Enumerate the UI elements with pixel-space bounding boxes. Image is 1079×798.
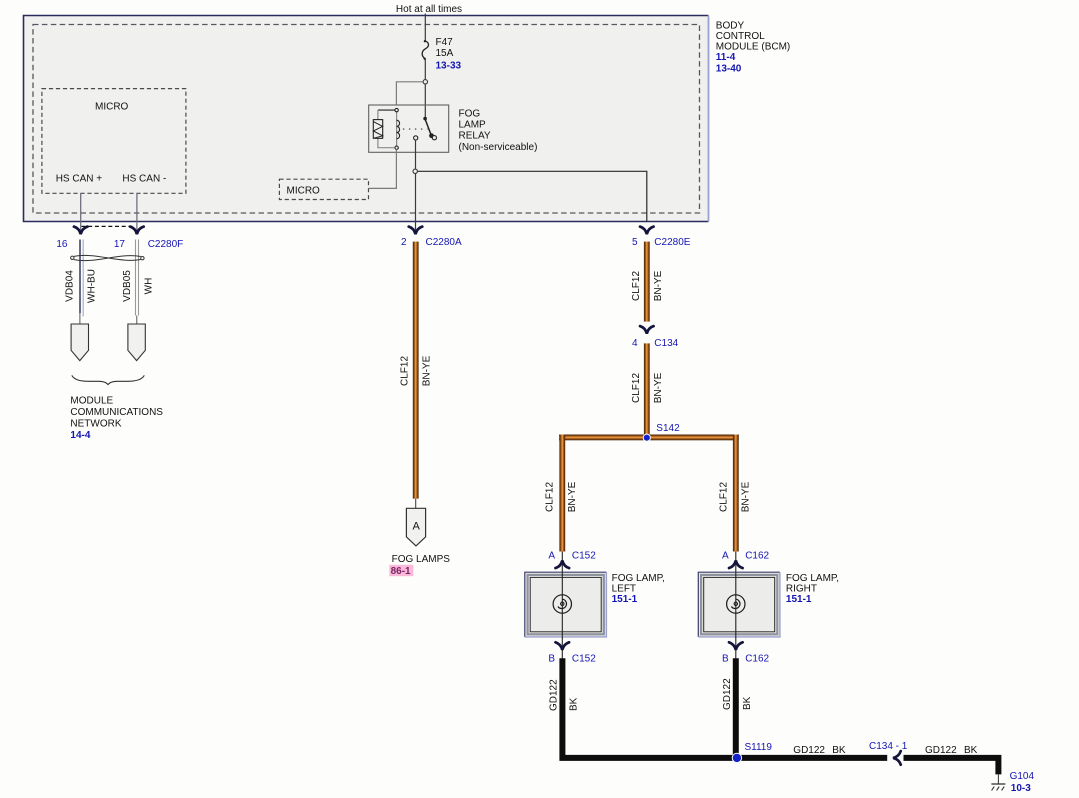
svg-text:14-4: 14-4 (70, 430, 90, 441)
connector C134-1 arrow (893, 751, 901, 765)
module communications network label (70, 395, 163, 441)
junction node at relay output (413, 169, 417, 173)
ground G104 labels (1010, 771, 1035, 794)
fog lamp right label (786, 573, 839, 605)
svg-text:B: B (548, 654, 555, 665)
svg-text:LEFT: LEFT (612, 584, 636, 595)
relay coil vertical conductor (396, 112, 398, 146)
svg-text:MODULE: MODULE (70, 395, 113, 406)
relay coil bottom pin (395, 146, 398, 149)
off-page arrow (HS CAN -) (128, 324, 145, 361)
BCM module box (24, 16, 709, 222)
fog lamp left bulb (553, 572, 571, 637)
BCM inner dashed border (33, 25, 700, 214)
wire GD122 BK left (562, 658, 737, 758)
svg-text:86-1: 86-1 (391, 566, 411, 577)
svg-text:BN-YE: BN-YE (653, 270, 664, 301)
splice S142 (643, 423, 680, 441)
wire: junction branch to relay coil (396, 82, 422, 105)
svg-text:FOG LAMP,: FOG LAMP, (786, 573, 839, 584)
relay switch (414, 117, 437, 140)
wire: left drop to C152 (559, 435, 565, 552)
connector C2280F pin 16 arrow (74, 227, 88, 235)
svg-text:HS CAN -: HS CAN - (122, 174, 166, 185)
svg-text:B: B (722, 654, 729, 665)
off-page arrow (HS CAN +) (71, 324, 88, 361)
svg-text:CLF12: CLF12 (399, 356, 410, 386)
svg-text:FOG: FOG (459, 108, 481, 119)
ground G104 (991, 784, 1005, 790)
svg-text:BK: BK (832, 745, 846, 756)
svg-text:BN-YE: BN-YE (653, 372, 664, 403)
wire stub to ground (997, 774, 999, 784)
wire labels CLF12 / BN-YE right upper (631, 270, 664, 301)
relay actuation dotted link (403, 128, 428, 130)
svg-text:GD122: GD122 (722, 678, 733, 710)
wire CLF12 BN-YE (C134 to S142) (644, 343, 650, 436)
svg-text:BK: BK (964, 745, 978, 756)
junction node above relay (423, 80, 427, 84)
svg-text:S142: S142 (656, 423, 680, 434)
connector C2280F pin 17 arrow (130, 227, 144, 235)
wire VDB05 WH (136, 240, 139, 325)
wire: S1119 to C134-1 (737, 755, 887, 761)
wire: battery feed into BCM (424, 14, 426, 41)
connector C162 pin A (722, 551, 770, 573)
svg-text:C162: C162 (745, 654, 769, 665)
relay coil winding (397, 120, 400, 139)
wire: switch output down to junction (415, 140, 417, 169)
wire labels VDB04 / WH-BU (64, 269, 97, 303)
svg-text:17: 17 (114, 239, 126, 250)
svg-text:BK: BK (569, 697, 580, 711)
svg-text:A: A (722, 551, 729, 562)
fuse F47 15A (422, 40, 428, 60)
connector C2280A arrow (409, 227, 423, 235)
fog lamp right bulb (727, 572, 745, 637)
wire GD122 BK right (733, 658, 739, 758)
svg-text:CLF12: CLF12 (631, 373, 642, 403)
twisted pair symbol (71, 255, 144, 260)
wire labels VDB05 / WH (122, 270, 155, 302)
svg-text:C152: C152 (572, 654, 596, 665)
relay box (fog lamp relay) (369, 105, 449, 152)
svg-text:13-33: 13-33 (436, 61, 462, 72)
svg-text:15A: 15A (436, 48, 454, 59)
svg-text:CLF12: CLF12 (545, 482, 556, 512)
connector C162 pin B (722, 637, 770, 665)
svg-text:13-40: 13-40 (716, 64, 742, 75)
connector C2280F labels (56, 239, 183, 250)
connector C2280F dashed link (82, 225, 135, 227)
wire label GD122 BK bottom left (793, 745, 846, 756)
svg-text:151-1: 151-1 (786, 594, 812, 605)
wire labels CLF12 / BN-YE center (399, 355, 432, 386)
svg-text:4: 4 (632, 338, 638, 349)
svg-text:FOG LAMP,: FOG LAMP, (612, 573, 665, 584)
svg-text:11-4: 11-4 (716, 52, 736, 63)
wire: C134-1 to ground (904, 758, 999, 775)
fuse F47 labels (436, 37, 462, 72)
wire: junction to switch pivot (424, 84, 426, 118)
wire labels CLF12 / BN-YE right lower (631, 372, 664, 403)
svg-text:MODULE (BCM): MODULE (BCM) (716, 42, 790, 53)
wire: micro2 to relay coil (369, 149, 397, 188)
svg-text:G104: G104 (1010, 771, 1035, 782)
svg-text:VDB04: VDB04 (64, 270, 75, 302)
svg-text:A: A (413, 521, 421, 533)
relay label (459, 108, 538, 153)
svg-text:A: A (548, 551, 555, 562)
svg-text:WH: WH (144, 278, 155, 295)
connector C134 labels (632, 338, 679, 349)
fog lamp right box (698, 572, 780, 637)
connector C134-1 label (869, 741, 908, 752)
fog lamp left box (525, 572, 607, 637)
svg-text:WH-BU: WH-BU (86, 269, 97, 303)
brace (72, 375, 145, 384)
wire: right drop to C162 (733, 435, 739, 552)
fog lamps destination label (389, 554, 450, 577)
node: Hot at all times (396, 4, 462, 15)
svg-text:MICRO: MICRO (287, 186, 321, 197)
connector C2280E labels (632, 237, 691, 248)
svg-text:5: 5 (632, 237, 638, 248)
svg-text:GD122: GD122 (925, 745, 957, 756)
fog lamp left label (612, 573, 665, 605)
svg-text:GD122: GD122 (793, 745, 825, 756)
MICRO box 2 (279, 179, 368, 199)
wire: junction down to C2280A (415, 174, 417, 234)
svg-text:2: 2 (401, 237, 407, 248)
svg-text:BN-YE: BN-YE (567, 481, 578, 512)
connector C152 pin B (548, 637, 596, 665)
svg-text:C2280A: C2280A (426, 237, 462, 248)
svg-text:CLF12: CLF12 (718, 482, 729, 512)
wire stub to off-page arrow A (415, 499, 417, 509)
svg-text:GD122: GD122 (549, 679, 560, 711)
wire: HS CAN - inside BCM (136, 193, 138, 233)
wire CLF12 BN-YE (C2280A to fog lamps feed) (413, 242, 419, 499)
relay resistor (parallel with coil) (373, 110, 395, 148)
wire labels GD122 / BK right (722, 678, 753, 710)
svg-text:BK: BK (742, 696, 753, 710)
relay coil top pin (395, 108, 398, 111)
wire: fuse to junction (424, 59, 426, 79)
BCM label (716, 20, 790, 74)
wire labels CLF12 / BN-YE left drop (545, 481, 578, 512)
wire: splice crossbar (559, 435, 739, 441)
svg-text:CLF12: CLF12 (631, 271, 642, 301)
connector C2280A labels (401, 237, 462, 248)
wire label GD122 BK bottom right (925, 745, 978, 756)
connector C152 pin A (548, 551, 596, 573)
svg-text:C152: C152 (572, 551, 596, 562)
svg-text:F47: F47 (436, 37, 454, 48)
svg-text:C2280F: C2280F (148, 239, 184, 250)
svg-text:C134 - 1: C134 - 1 (869, 741, 908, 752)
svg-text:RIGHT: RIGHT (786, 584, 817, 595)
off-page arrow A (fog lamps) (406, 508, 425, 546)
wire labels CLF12 / BN-YE right drop (718, 481, 751, 512)
svg-text:FOG LAMPS: FOG LAMPS (392, 554, 451, 565)
svg-text:16: 16 (56, 239, 68, 250)
wire: HS CAN + inside BCM (80, 193, 82, 233)
svg-text:CONTROL: CONTROL (716, 31, 765, 42)
svg-text:C134: C134 (654, 338, 678, 349)
svg-text:C162: C162 (745, 551, 769, 562)
svg-text:COMMUNICATIONS: COMMUNICATIONS (70, 407, 163, 418)
svg-text:RELAY: RELAY (459, 131, 491, 142)
wire CLF12 BN-YE (C2280E to C134) (644, 242, 650, 322)
svg-text:BN-YE: BN-YE (741, 481, 752, 512)
svg-text:(Non-serviceable): (Non-serviceable) (459, 142, 538, 153)
connector C2280E arrow (640, 227, 654, 235)
splice S1119 (732, 742, 772, 763)
svg-text:151-1: 151-1 (612, 594, 638, 605)
connector C134 arrow (640, 326, 654, 334)
svg-text:LAMP: LAMP (459, 120, 487, 131)
wire labels GD122 / BK left (549, 679, 580, 711)
svg-text:NETWORK: NETWORK (70, 418, 121, 429)
svg-text:VDB05: VDB05 (122, 270, 133, 302)
svg-text:BODY: BODY (716, 20, 745, 31)
wire: junction to C2280E drop (418, 171, 647, 221)
svg-text:Hot at all times: Hot at all times (396, 4, 462, 15)
svg-text:MICRO: MICRO (95, 102, 129, 113)
MICRO box 1 (42, 89, 186, 194)
svg-text:10-3: 10-3 (1011, 783, 1031, 794)
svg-text:S1119: S1119 (745, 742, 773, 753)
svg-text:HS CAN +: HS CAN + (56, 174, 103, 185)
svg-text:C2280E: C2280E (654, 237, 690, 248)
svg-text:BN-YE: BN-YE (422, 355, 433, 386)
wire VDB04 WH-BU (80, 240, 83, 325)
